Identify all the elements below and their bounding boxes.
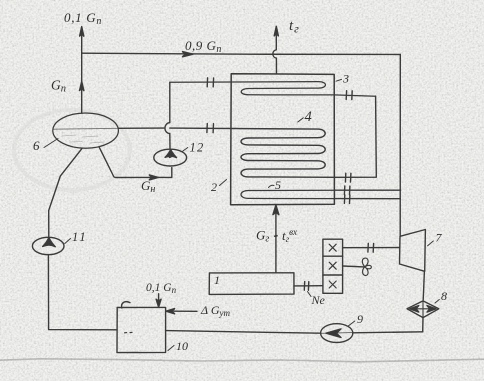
pump 11 (32, 237, 64, 254)
svg-text:0,1 Gп: 0,1 Gп (64, 10, 102, 27)
wire: turbine exhaust down (423, 271, 424, 300)
svg-text:3: 3 (342, 72, 349, 86)
wire: riser junction to coil 3 level (169, 82, 171, 122)
gearbox stack (3 cells with X) (323, 239, 343, 293)
arrow tg up (274, 26, 278, 36)
arrow Gn right (149, 175, 158, 180)
svg-text:7: 7 (436, 231, 443, 245)
wire: condensate line pump 9 to tank 10 (166, 331, 321, 334)
union ticks on coil 3 inlet (207, 78, 213, 87)
junction hop at pump 12 riser (165, 123, 170, 134)
coil 4 (middle serpentine) (170, 128, 334, 177)
wire: bypass right leg (inner rect) (334, 96, 376, 177)
union ticks on coil 5 upper (344, 186, 350, 195)
wire: 0,9Gp top header (82, 53, 401, 54)
combustor 1 (209, 273, 294, 295)
union ticks on coil 4 outlet (345, 173, 351, 182)
wire: coil 5 upper to right downcomer (334, 189, 400, 191)
svg-text:6: 6 (33, 138, 40, 153)
svg-text:12: 12 (190, 141, 205, 155)
dots in tank 10 (125, 331, 133, 333)
leader tick for 3 (336, 79, 342, 81)
leader tick for Ne (308, 292, 312, 297)
pump 9 (321, 324, 353, 343)
svg-text:5: 5 (275, 178, 281, 192)
union ticks on Ne shaft (304, 282, 308, 291)
arrow 0,1Gp into tank 10 (158, 294, 160, 301)
fan (propeller 8-shape) (362, 258, 371, 275)
gas duct: Gg arrow into HX bottom (275, 213, 277, 273)
svg-text:11: 11 (72, 230, 88, 244)
svg-text:tг: tг (289, 18, 300, 36)
leader tick for 5 (269, 185, 275, 187)
wire: drum to junction (feedwater) (119, 127, 164, 129)
leader tick for 10 (168, 346, 174, 351)
union ticks on coil 5 lower (344, 195, 350, 204)
svg-text:10: 10 (176, 339, 188, 353)
arrow dGut into tank 10 (174, 310, 197, 312)
drum/separator 6 (ellipse) (53, 113, 119, 148)
union ticks on turbine shaft (368, 243, 374, 252)
wire: combustor 1 to gearbox (Ne shaft) (294, 285, 323, 287)
coil 3 (top serpentine) (170, 82, 376, 97)
leader tick for 4 (298, 118, 304, 122)
union ticks on coil 4 inlet (207, 124, 214, 133)
svg-text:2: 2 (211, 180, 217, 194)
svg-text:0,9 Gп: 0,9 Gп (185, 38, 222, 55)
svg-text:1: 1 (214, 273, 220, 287)
wire: right downcomer of header (399, 55, 401, 237)
wire: gearbox top cell to turbine shaft (343, 247, 400, 249)
watermark ghost (14, 110, 130, 190)
union ticks on coil 3 outlet (346, 91, 352, 100)
wire: riser down to pump 12 (169, 134, 171, 149)
leader tick for 9 (348, 321, 355, 326)
wire: tg stack line with hop over header (273, 34, 277, 74)
tank 10 (117, 307, 166, 352)
vent hook on tank 10 (122, 302, 130, 308)
heat exchanger 2 (shell) (231, 74, 335, 205)
wire: drum 6 to pump 12 (Gn line) (99, 148, 171, 178)
arrow 0,9Gp right (183, 52, 194, 57)
leader tick for 2 (220, 180, 227, 186)
water level line in drum 6 (53, 127, 118, 130)
leader tick for 7 (428, 241, 434, 246)
svg-text:8: 8 (441, 289, 447, 303)
wire: condensate bottom line right of pump 9 (353, 332, 423, 333)
coil 5 (bottom loop) (241, 190, 334, 198)
turbine 7 (400, 230, 426, 272)
wire: 0,1Gp riser from drum top (81, 34, 83, 113)
valve 8 (diamond with double arrow) (407, 301, 439, 318)
wire: gearbox mid cell to fan (343, 265, 365, 268)
scan artifact line (0, 359, 484, 362)
leader tick for 11 (65, 239, 71, 244)
svg-text:Nе: Nе (311, 293, 326, 307)
leader tick for 12 (182, 148, 188, 152)
svg-text:9: 9 (357, 312, 363, 326)
leader tick for 6 (44, 139, 58, 148)
arrow 0,1Gp up (80, 27, 84, 37)
wire: coil 5 lower to turbine feed (334, 198, 400, 200)
hatch marks in drum 6 (62, 135, 104, 143)
wire: valve 8 down to condensate line (422, 317, 424, 331)
arrow Gp up (mid riser) (80, 81, 84, 90)
svg-text:4: 4 (305, 109, 312, 125)
pump 12 (154, 149, 187, 166)
leader tick for 8 (435, 300, 439, 304)
wire: drum 6 to pump 11 (49, 149, 82, 238)
